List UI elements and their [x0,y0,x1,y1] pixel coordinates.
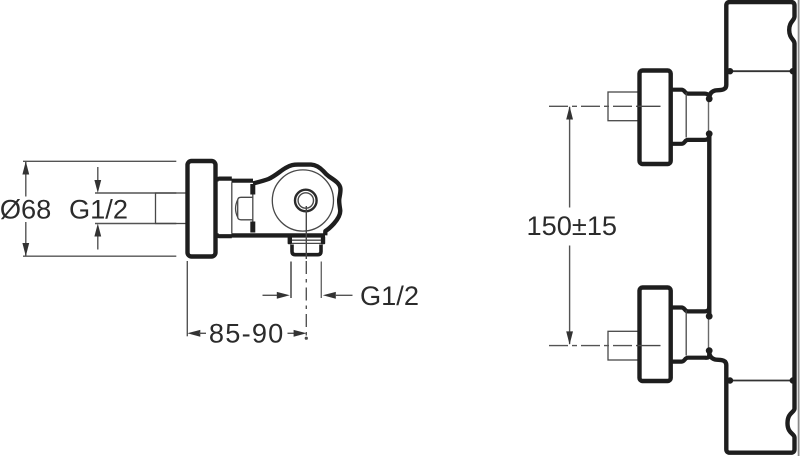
inlet pipe stub [156,193,188,224]
dimension G1/2 outlet: left arrowhead (points left) [323,292,336,299]
svg-text:Ø68: Ø68 [0,193,51,224]
svg-text:G1/2: G1/2 [69,193,128,224]
dimension O68: up arrowhead [22,161,29,174]
lower union step bottom edge [671,353,710,362]
upper boss line right dot [790,68,796,74]
body top edge [232,179,254,183]
upper boss line left dot [727,68,733,74]
cartridge nut face arc [236,200,238,218]
outlet flange right block [321,236,325,244]
outlet flange left block [288,236,292,244]
lower union step top edge [671,307,710,312]
dimension O68: vertical dimension line lower segment [25,222,27,256]
upper union seat thin line [708,99,710,133]
handle ring inner [298,193,313,208]
dimension G1/2 inlet: bottom extension line [95,223,176,225]
upper union step bottom edge [671,135,710,144]
svg-text:G1/2: G1/2 [360,280,419,311]
upper union upper blob [706,95,713,102]
dimension G1/2 outlet: left tail [263,294,278,296]
lower union lower blob [706,347,713,354]
lower boss line left dot [727,377,733,383]
upper union neck boundary thin line [685,93,687,138]
collar bottom edge [217,233,232,236]
upper union step top edge [671,90,710,99]
joint clamp upper block [250,184,255,195]
dimension 85-90: left extension line [186,261,188,336]
body bar left edge between unions [707,132,711,319]
handle ring outer [295,190,317,212]
dimension 150+-15: upper line segment [569,107,571,208]
outlet flange lower thin line [292,242,321,244]
dimension 85-90: left arrowhead [187,330,200,337]
dimension 85-90: centerline end dot [305,337,308,340]
dimension G1/2 inlet: top extension line [95,192,176,194]
outlet body [292,245,321,255]
outlet centerline dashed part [305,261,307,336]
dimension G1/2 inlet: down arrowhead [94,180,101,193]
dimension G1/2 outlet: right arrowhead (points right) [277,292,290,299]
wall flange plate [188,161,216,257]
cartridge nut body [238,197,253,220]
knob disc thin circle [272,170,333,231]
dimension 150+-15: up arrowhead [566,106,573,119]
outlet right extension line [320,262,322,299]
body bar outline [709,2,794,453]
dimension O68: bottom extension line [23,255,176,257]
body bottom edge [232,233,326,237]
lower union seat thin line [708,316,710,350]
dimension O68: vertical dimension line upper segment [25,162,27,197]
joint thin line [252,186,254,230]
lower union upper blob [706,313,713,320]
lower union neck boundary thin line [685,310,687,355]
dimension G1/2 inlet: lower leader [97,231,99,250]
lower boss line [729,380,793,382]
outlet flange upper thin line [292,239,321,241]
dimension G1/2 inlet: up arrowhead [94,224,101,237]
upper union lower blob [706,130,713,137]
dimension 85-90: left line segment [199,332,206,334]
dimension 85-90: right line segment [288,332,296,334]
lower union pipe stub [608,331,639,360]
lower boss line right dot [790,377,796,383]
cropped edge line at canvas right [798,0,800,456]
dimension G1/2 outlet: right tail [336,294,353,296]
svg-text:85-90: 85-90 [209,317,285,348]
dimension 150+-15: lower line segment [569,246,571,345]
dimension O68: top extension line [23,160,176,162]
outlet left extension line [290,262,292,299]
collar/body boundary thin line [231,183,233,234]
lower centerline solid [638,345,661,347]
lower union wall flange [640,288,671,382]
housing thick outline [253,165,340,236]
upper boss line [729,70,793,72]
upper centerline solid [638,105,661,107]
joint clamp lower block [250,222,255,233]
upper union pipe stub [608,92,639,121]
upper union wall flange [640,71,671,165]
lower centerline dashed [549,345,638,347]
dimension 150+-15: down arrowhead [566,331,573,344]
outlet centerline solid part [305,206,307,259]
dimension 85-90: right arrowhead [294,330,307,337]
upper centerline dashed [549,105,638,107]
svg-text:150±15: 150±15 [527,210,618,241]
collar top edge [217,179,232,182]
dimension O68: down arrowhead [22,243,29,256]
dimension G1/2 inlet: upper leader [97,167,99,186]
